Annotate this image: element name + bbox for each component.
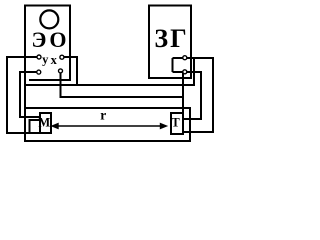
svg-text:y: y [42,53,49,67]
svg-text:ЭО: ЭО [31,27,69,52]
svg-text:М: М [38,116,50,130]
svg-text:r: r [100,107,106,122]
svg-text:ЗГ: ЗГ [154,24,188,53]
svg-text:Т: Т [171,116,180,130]
svg-text:x: x [51,53,58,67]
